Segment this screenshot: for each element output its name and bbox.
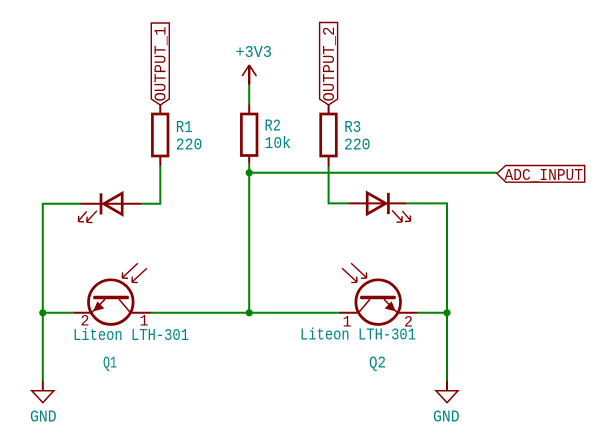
svg-text:Q2: Q2	[369, 355, 386, 374]
svg-text:Liteon LTH-301: Liteon LTH-301	[300, 327, 416, 346]
svg-text:GND: GND	[30, 409, 57, 428]
wire ADC horizontal	[249, 172, 497, 174]
junction right rail	[443, 309, 450, 316]
svg-text:+3V3: +3V3	[236, 44, 273, 63]
svg-text:220: 220	[344, 137, 371, 156]
junction left rail	[39, 309, 46, 316]
wire LED1 to left rail	[43, 204, 81, 313]
LED D2 emission arrows	[392, 210, 411, 222]
wire bus right segment	[417, 312, 447, 314]
wire bus middle segment	[151, 312, 340, 314]
wire LED2 to right rail	[406, 203, 447, 312]
resistor R3	[321, 105, 337, 167]
phototransistor Q1	[74, 280, 151, 325]
LED D1	[81, 193, 142, 214]
phototransistor Q2	[339, 280, 417, 325]
resistor R2	[241, 105, 257, 164]
wire R3 bottom to LED2	[329, 167, 349, 204]
wire bus left segment	[43, 312, 74, 314]
wire R1 bottom to LED1	[141, 166, 160, 204]
svg-text:R1: R1	[176, 119, 193, 138]
ground symbol right	[436, 381, 458, 403]
wire middle vertical to bus	[248, 173, 250, 313]
wire left rail to GND	[42, 313, 44, 381]
ground symbol left	[32, 381, 54, 403]
svg-text:OUTPUT_1: OUTPUT_1	[153, 27, 172, 102]
svg-text:GND: GND	[433, 409, 460, 428]
global label ADC_INPUT	[497, 166, 585, 183]
wire right rail to GND	[446, 313, 448, 381]
global label OUTPUT_1	[151, 23, 169, 105]
LED D1 emission arrows	[78, 211, 97, 223]
junction middle bus	[246, 309, 253, 316]
svg-text:10k: 10k	[265, 135, 292, 154]
Q2 light arrows	[342, 263, 367, 282]
resistor R1	[152, 105, 168, 167]
global label OUTPUT_2	[320, 23, 338, 106]
power symbol +3V3	[242, 65, 256, 85]
wire R2 bottom to junction	[248, 163, 250, 173]
svg-text:OUTPUT_2: OUTPUT_2	[321, 27, 340, 102]
svg-text:Liteon LTH-301: Liteon LTH-301	[73, 327, 189, 346]
Q2 emitter arrowhead	[386, 302, 395, 310]
Q1 emitter arrowhead	[94, 302, 103, 310]
wire +3V3 to R2	[248, 85, 250, 105]
junction at R2/ADC	[246, 169, 253, 176]
LED D2	[348, 193, 406, 214]
svg-text:R3: R3	[344, 119, 361, 138]
svg-text:220: 220	[176, 137, 203, 156]
Q1 light arrows	[122, 263, 147, 282]
svg-text:Q1: Q1	[103, 355, 117, 374]
svg-text:ADC_INPUT: ADC_INPUT	[505, 167, 584, 186]
svg-text:R2: R2	[265, 118, 282, 137]
